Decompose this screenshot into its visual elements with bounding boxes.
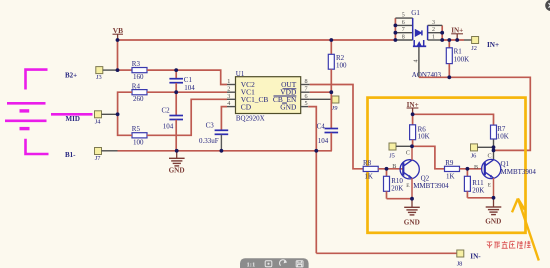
G1 pin 2 [428, 27, 443, 33]
svg-text:GND: GND [169, 167, 185, 175]
svg-text:MID: MID [66, 115, 80, 123]
port J5 [389, 143, 396, 160]
overvoltage protection highlight box [368, 98, 526, 233]
svg-text:R5: R5 [132, 125, 141, 133]
junction Q2 collector node [410, 144, 414, 148]
svg-text:G1: G1 [411, 9, 420, 17]
svg-text:B1-: B1- [65, 151, 76, 159]
junction gate net / R1 bottom [447, 75, 451, 79]
svg-text:6: 6 [305, 93, 308, 100]
svg-text:7: 7 [402, 27, 405, 33]
resistor R7 [491, 125, 509, 140]
junction IN+ label tie [455, 38, 459, 42]
resistor R2 [328, 40, 347, 92]
junction J4 / R4 / R5 [116, 112, 120, 116]
U1 pin 5 GND [280, 100, 308, 111]
svg-text:B: B [392, 163, 396, 170]
svg-text:MMBT3904: MMBT3904 [501, 168, 537, 176]
svg-text:100: 100 [133, 138, 144, 146]
junction Q1 collector / gate net [492, 149, 496, 153]
resistor R5 [132, 125, 147, 146]
svg-text:10K: 10K [497, 132, 509, 140]
wire Q2 collector node to R9 [412, 146, 445, 169]
svg-text:C4: C4 [317, 123, 326, 131]
svg-text:R8: R8 [363, 159, 372, 167]
wire R3 to U1 pin1 [147, 70, 227, 84]
svg-text:8: 8 [305, 78, 308, 85]
resistor R3 [132, 60, 147, 81]
ground symbol (middle) [169, 151, 185, 166]
svg-text:U1: U1 [236, 70, 245, 78]
wire OUT to R8 column [310, 85, 364, 169]
U1 pin 7 VDD [280, 85, 309, 96]
svg-text:104: 104 [163, 122, 174, 130]
transistor G1 AON7403 labels [411, 9, 441, 79]
wire VB vertical [117, 40, 119, 70]
net IN+ label (protection box) [407, 101, 419, 115]
port J2 [471, 37, 478, 53]
svg-text:J4: J4 [95, 118, 101, 125]
annotation text (Chinese: overvoltage protection) [487, 241, 531, 248]
svg-text:10K: 10K [418, 133, 430, 141]
transistor Q2 MMBT3904 [392, 150, 449, 190]
svg-text:4: 4 [227, 100, 230, 107]
port J9 [331, 96, 339, 112]
svg-text:R4: R4 [132, 83, 141, 91]
wire Q2 emitter down [411, 178, 413, 199]
wire GND row [118, 150, 332, 152]
junction Q1 emitter / R11 / ground [492, 196, 496, 200]
U1 pin 8 OUT [281, 78, 310, 89]
net IN+ label (top) [451, 27, 463, 40]
wire pin1 row to J2 [442, 39, 464, 41]
transistor Q1 MMBT3904 [474, 153, 536, 189]
capacitor C3 [199, 107, 228, 151]
junction J3 / R3 / VB [116, 68, 120, 72]
junction G1 left bus pin 7 [394, 31, 398, 35]
close button (top-right, clipped) [545, 0, 550, 11]
junction GND row / C2 / ground [175, 149, 179, 153]
svg-text:20K: 20K [391, 184, 403, 192]
svg-text:IN+: IN+ [487, 41, 499, 49]
junction VDD / R2 / C4 [329, 90, 333, 94]
wire R9 to Q1 base [460, 168, 483, 170]
svg-text:J2: J2 [471, 45, 477, 52]
wire J4 stub [102, 113, 118, 115]
junction G1 right bus pin 1 [440, 38, 444, 42]
junction Q2 base / R10 [385, 167, 389, 171]
port J6 [471, 144, 478, 160]
battery B1/B2 symbol [5, 70, 49, 154]
wire node to R3 [118, 69, 133, 71]
junction G1 right bus pin 2 [440, 31, 444, 35]
svg-text:R1: R1 [454, 48, 463, 56]
wire R10 bottom to emitter node [387, 198, 413, 200]
resistor R11 [464, 169, 484, 198]
svg-text:C2: C2 [162, 106, 171, 114]
power net VB label [113, 26, 124, 40]
junction main wire / G1 pin 8 [394, 38, 398, 42]
G1 pin 4 (gate) [414, 47, 420, 78]
svg-text:CD: CD [241, 102, 252, 111]
svg-text:IN-: IN- [470, 253, 481, 261]
svg-text:7: 7 [305, 85, 308, 92]
svg-text:1: 1 [432, 35, 435, 41]
wire IN- bottom run [316, 252, 457, 254]
U1 pin 4 CD [227, 100, 252, 111]
svg-text:2: 2 [227, 85, 230, 92]
svg-text:GND: GND [404, 218, 420, 226]
svg-text:5: 5 [305, 100, 308, 107]
wire Q2 collector [411, 146, 413, 160]
wire R4 right to U1 pin2 [147, 91, 227, 93]
junction Q1 base / R11 [466, 167, 470, 171]
resistor R10 [384, 169, 404, 199]
wire J5 stub [396, 145, 412, 147]
svg-text:6: 6 [402, 20, 405, 26]
svg-text:R9: R9 [445, 159, 454, 167]
svg-text:260: 260 [133, 95, 144, 103]
svg-text:J7: J7 [95, 155, 101, 162]
svg-text:3: 3 [432, 20, 435, 26]
svg-text:104: 104 [318, 137, 329, 145]
junction R3 wire / C1 top [174, 68, 178, 72]
svg-text:8: 8 [402, 35, 405, 41]
resistor R1 [446, 40, 469, 77]
svg-text:20K: 20K [472, 186, 484, 194]
port J3 [96, 67, 103, 82]
U1 pin 6 CB_EN [273, 93, 310, 104]
svg-text:R3: R3 [132, 60, 141, 68]
U1 pin 2 VC1 [227, 85, 255, 96]
svg-text:0.33uF: 0.33uF [199, 137, 219, 145]
port J7 [95, 148, 102, 163]
wire G1 right pin bus [441, 25, 443, 40]
junction R4 wire / C1-C2 [174, 90, 178, 94]
resistor R9 [445, 159, 460, 180]
resistor R8 [363, 159, 378, 180]
junction Q2 emitter / R10 / ground [410, 197, 414, 201]
wire R5 right to U1 pin3 [147, 99, 227, 135]
svg-text:100K: 100K [454, 55, 470, 63]
U1 pin 1 VC2 [227, 78, 255, 89]
annotation arrow (yellow) [512, 199, 539, 261]
ground symbol (Q1) [486, 198, 502, 215]
svg-text:MMBT3904: MMBT3904 [413, 182, 449, 190]
port J4 [95, 111, 102, 126]
wire G1 left pin bus [394, 18, 396, 40]
G1 pin 8 [395, 35, 412, 41]
ground symbol (Q2) [404, 199, 420, 215]
svg-text:J5: J5 [389, 153, 395, 160]
junction IN+ / R1 top [447, 38, 451, 42]
G1 pin 7 [395, 27, 412, 33]
U1 pin 3 VC1_CB [227, 93, 268, 104]
svg-text:C1: C1 [184, 76, 193, 84]
wire GND pin to down-run [308, 107, 316, 254]
wire R7 bottom to Q1 collector [493, 139, 495, 160]
wire R11 bottom to emitter node [467, 197, 493, 199]
junction IN+ node / R6 / R7 branch [411, 112, 415, 116]
junction Q1 collector / J6 [492, 145, 496, 149]
G1 MOSFET symbol body [413, 18, 428, 46]
wire J6 stub [478, 146, 494, 148]
port J8 [457, 250, 464, 268]
svg-text:2: 2 [432, 27, 435, 33]
svg-text:Q1: Q1 [501, 160, 510, 168]
resistor R6 [410, 114, 430, 146]
svg-text:C: C [488, 153, 492, 160]
wire VB main horizontal [118, 39, 396, 41]
svg-text:C3: C3 [206, 122, 215, 130]
G1 pin 5 [395, 13, 412, 19]
wire gate net (R1 bottom to right edge and down to Q1 collector) [419, 77, 530, 150]
svg-text:5: 5 [402, 13, 405, 19]
svg-text:B: B [474, 164, 478, 171]
svg-text:160: 160 [133, 73, 144, 81]
svg-text:C: C [406, 150, 410, 157]
svg-text:1:1: 1:1 [247, 261, 256, 268]
svg-text:1: 1 [227, 78, 230, 85]
svg-text:J8: J8 [457, 261, 463, 268]
svg-text:3: 3 [227, 93, 230, 100]
svg-text:J6: J6 [471, 152, 477, 159]
svg-text:J9: J9 [331, 105, 338, 112]
wire VDD to R2/C4 node [310, 91, 332, 93]
wire MID (magenta) [51, 113, 93, 116]
svg-text:100: 100 [336, 62, 347, 70]
svg-text:B2+: B2+ [65, 71, 77, 79]
svg-text:GND: GND [280, 102, 297, 111]
svg-text:1K: 1K [446, 173, 455, 181]
junction VB / main wire [116, 38, 120, 42]
wire R4 left to J4 [118, 92, 132, 114]
svg-text:GND: GND [485, 218, 501, 226]
wire J3 to node [103, 69, 118, 71]
G1 pin 6 [395, 20, 412, 26]
G1 pin 3 [428, 20, 443, 26]
wire R8 to Q2 base [378, 168, 403, 170]
wire IN+ branch to R7 column [413, 114, 494, 125]
junction GND row / IN- run [314, 149, 318, 153]
wire CB_EN to J9 [310, 98, 332, 100]
capacitor C2 [162, 92, 184, 151]
capacitor C1 [169, 70, 195, 92]
junction GND row / C3 [220, 149, 224, 153]
status toolbar overlay [240, 258, 309, 268]
svg-text:BQ2920X: BQ2920X [236, 114, 265, 122]
svg-text:1K: 1K [364, 173, 373, 181]
svg-text:4: 4 [414, 60, 420, 63]
wire R5 left to J4 node [118, 114, 132, 135]
G1 pin 1 [428, 35, 443, 41]
wire Q1 emitter down [493, 178, 495, 198]
resistor R4 [132, 83, 147, 103]
junction G1 left bus pin 6 [394, 24, 398, 28]
wire J7 stub [102, 150, 118, 152]
svg-text:J3: J3 [96, 74, 102, 81]
capacitor C4 [317, 92, 339, 151]
junction main wire / R2 [329, 38, 333, 42]
svg-text:104: 104 [184, 84, 195, 92]
IC U1 BQ2920X body [236, 70, 301, 123]
